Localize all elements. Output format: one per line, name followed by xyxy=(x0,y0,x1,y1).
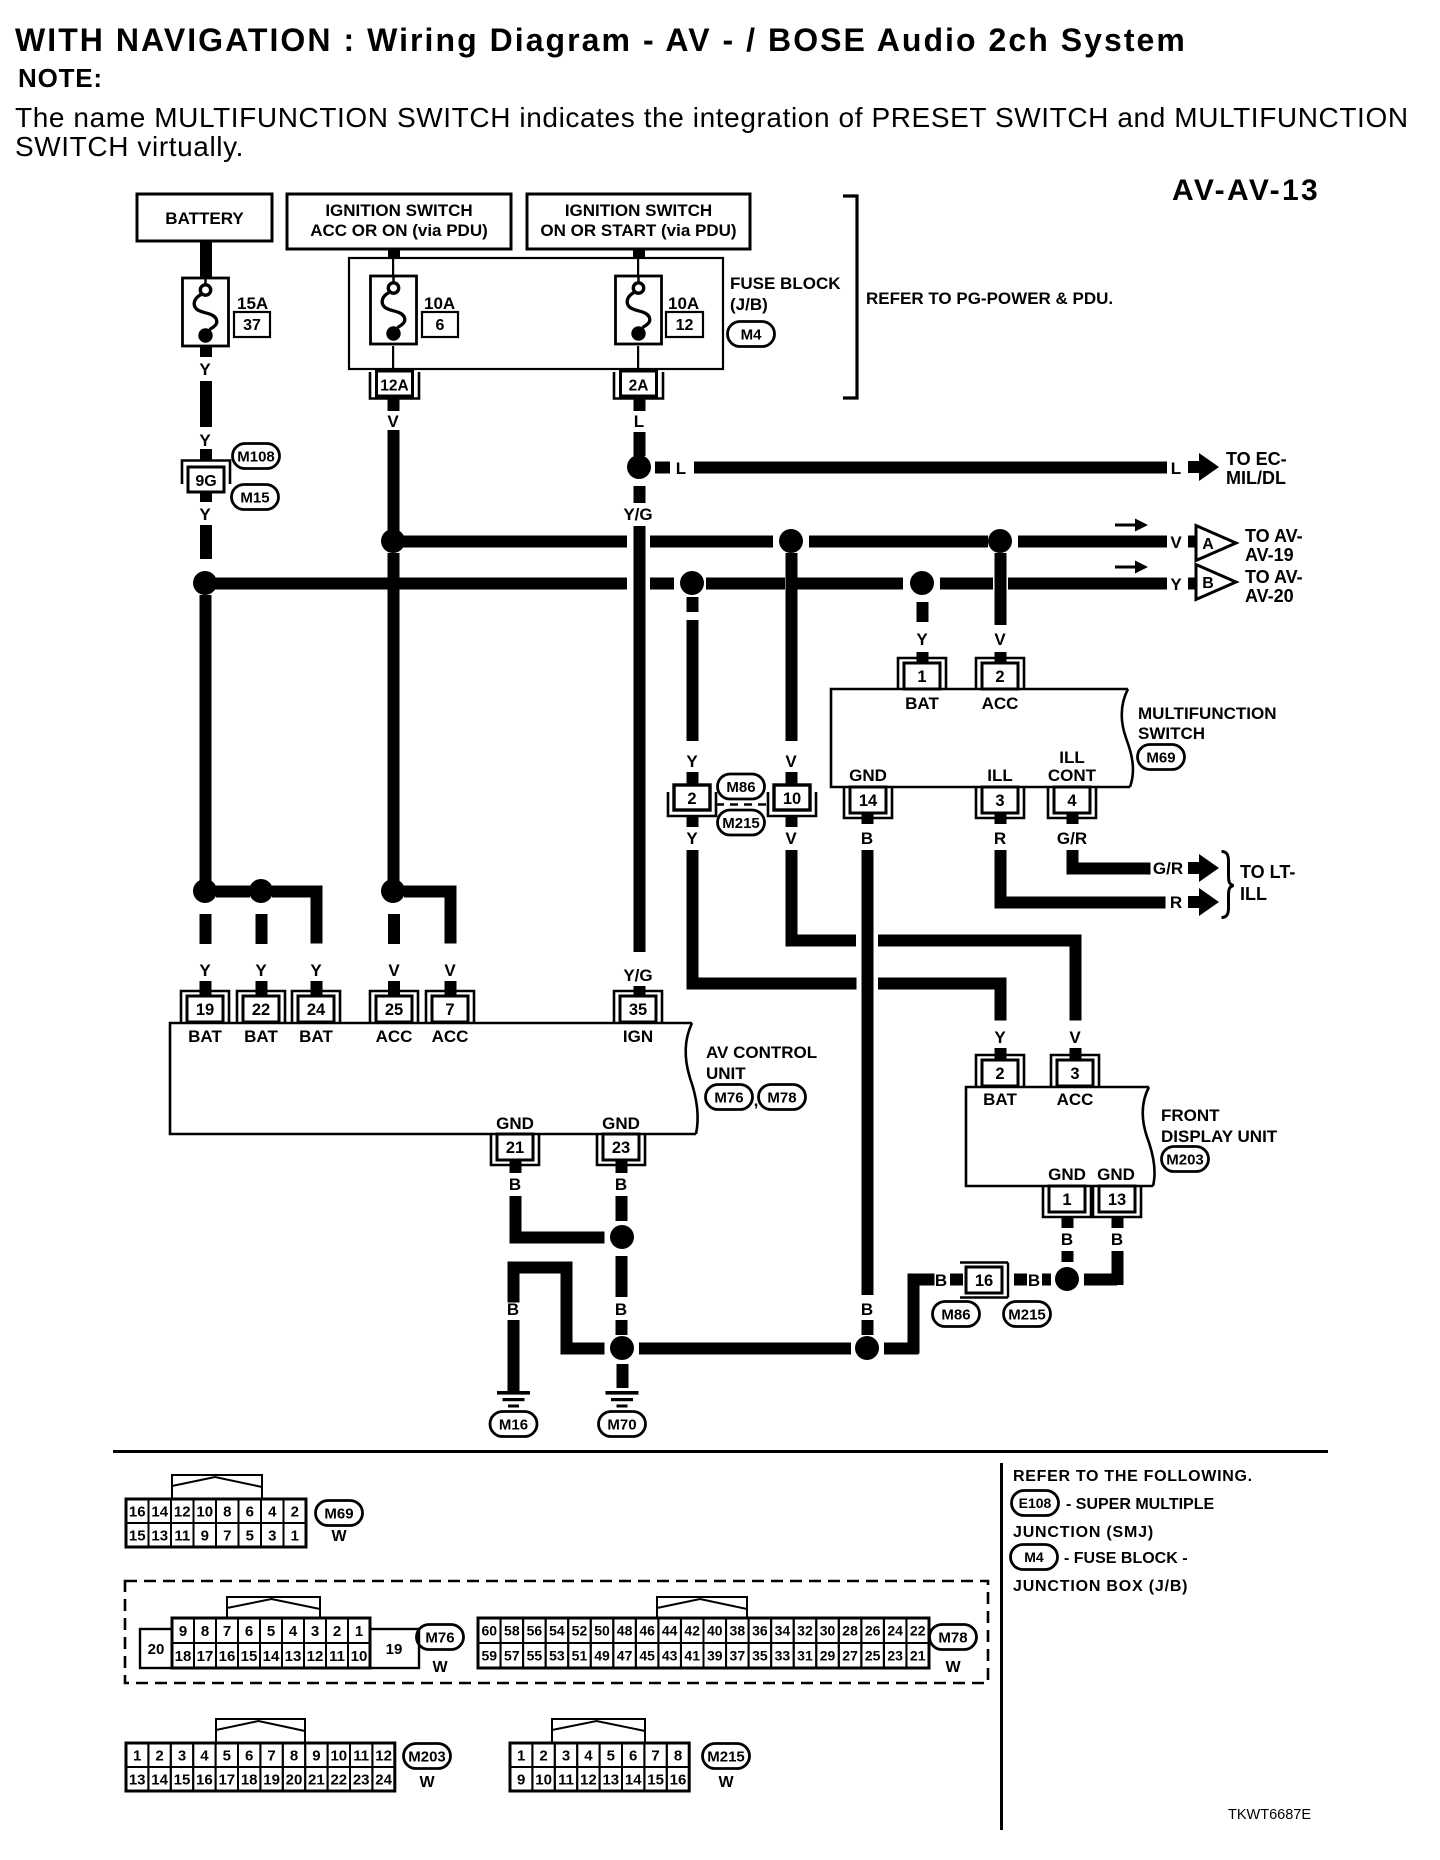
wire Y to pin19 xyxy=(199,914,211,995)
pin 14 MFS xyxy=(844,787,892,818)
svg-text:3: 3 xyxy=(268,1527,276,1544)
svg-text:The name MULTIFUNCTION SWITCH: The name MULTIFUNCTION SWITCH indicates … xyxy=(15,102,1409,133)
svg-text:20: 20 xyxy=(286,1771,303,1788)
node bus V mid1 xyxy=(779,529,803,553)
svg-text:BAT: BAT xyxy=(983,1090,1017,1109)
svg-text:16: 16 xyxy=(670,1771,687,1788)
svg-text:13: 13 xyxy=(1108,1191,1126,1209)
connector grid M78 xyxy=(478,1618,929,1668)
svg-text:M86: M86 xyxy=(941,1306,970,1323)
svg-text:3: 3 xyxy=(178,1747,186,1764)
svg-text:21: 21 xyxy=(910,1648,926,1664)
svg-text:CONT: CONT xyxy=(1048,766,1097,785)
svg-text:GND: GND xyxy=(602,1114,640,1133)
fuse 10A 6 xyxy=(371,276,459,344)
refer text xyxy=(866,289,1113,308)
wire B conn16 to node xyxy=(1014,1271,1051,1290)
svg-text:B: B xyxy=(615,1300,627,1319)
svg-text:ACC: ACC xyxy=(1057,1090,1094,1109)
svg-text:GND: GND xyxy=(1097,1165,1135,1184)
svg-text:L: L xyxy=(634,412,644,431)
svg-text:M215: M215 xyxy=(722,815,760,832)
wire thin f12 bottom xyxy=(637,346,639,371)
svg-text:2: 2 xyxy=(291,1503,299,1520)
svg-text:11: 11 xyxy=(353,1747,369,1764)
svg-text:IGNITION SWITCH: IGNITION SWITCH xyxy=(565,201,712,220)
svg-text:2: 2 xyxy=(155,1747,163,1764)
svg-text:9: 9 xyxy=(201,1527,209,1544)
svg-text:M203: M203 xyxy=(1166,1151,1204,1168)
svg-text:3: 3 xyxy=(562,1747,570,1764)
ground M70 xyxy=(606,1391,639,1408)
svg-text:3: 3 xyxy=(1070,1065,1079,1083)
pin 2 FDU xyxy=(976,1055,1024,1086)
connector M215 oval mid xyxy=(718,810,765,835)
wire Y dash xyxy=(199,381,212,460)
svg-text:JUNCTION (SMJ): JUNCTION (SMJ) xyxy=(1013,1524,1154,1541)
node B junction 21-23 xyxy=(610,1225,634,1249)
svg-text:60: 60 xyxy=(481,1623,497,1639)
svg-text:10: 10 xyxy=(351,1648,368,1665)
connector M16 oval xyxy=(490,1412,537,1437)
junction SMJ text xyxy=(1013,1524,1154,1541)
svg-text:12: 12 xyxy=(307,1648,324,1665)
pin 35 AV xyxy=(614,991,662,1022)
svg-text:V: V xyxy=(1170,533,1182,552)
wire B MFS GND xyxy=(861,813,874,1335)
connector M78 grid oval xyxy=(930,1625,977,1677)
svg-text:11: 11 xyxy=(174,1527,190,1544)
svg-text:59: 59 xyxy=(481,1648,497,1664)
svg-text:W: W xyxy=(432,1659,448,1676)
svg-text:FRONT: FRONT xyxy=(1161,1106,1220,1125)
wire B ground branch xyxy=(507,1262,605,1393)
svg-text:9: 9 xyxy=(517,1771,525,1788)
note body xyxy=(15,102,1409,162)
svg-text:16: 16 xyxy=(129,1503,146,1520)
svg-text:13: 13 xyxy=(285,1648,302,1665)
svg-text:12A: 12A xyxy=(380,378,408,395)
fuse 10A 12 xyxy=(616,276,704,344)
svg-text:2: 2 xyxy=(333,1623,341,1640)
svg-text:AV-AV-13: AV-AV-13 xyxy=(1172,174,1320,207)
svg-text:32: 32 xyxy=(797,1623,813,1639)
pin 21 AV xyxy=(491,1134,539,1165)
svg-text:V: V xyxy=(1069,1028,1081,1047)
wire L 2A to node xyxy=(634,399,646,456)
connector M203 oval xyxy=(1162,1147,1209,1172)
refer following text xyxy=(1013,1468,1253,1485)
svg-text:15: 15 xyxy=(647,1771,664,1788)
connector grid M76 xyxy=(140,1618,419,1668)
fuse 15A 37 xyxy=(183,278,271,346)
connector M4 oval ref xyxy=(1011,1545,1188,1570)
svg-text:W: W xyxy=(331,1528,347,1545)
pin 7 AV xyxy=(426,991,474,1022)
svg-text:ILL: ILL xyxy=(1240,884,1267,904)
svg-text:SWITCH: SWITCH xyxy=(1138,724,1205,743)
bus Y wire xyxy=(205,578,1167,590)
svg-text:21: 21 xyxy=(308,1771,325,1788)
connector 2A xyxy=(614,371,663,399)
svg-text:58: 58 xyxy=(504,1623,520,1639)
wire R to LT-ILL xyxy=(994,813,1182,912)
triangle connector B xyxy=(1196,565,1236,600)
svg-text:14: 14 xyxy=(859,792,878,810)
junction wires y=891 xyxy=(216,886,456,898)
svg-text:R: R xyxy=(1170,893,1182,912)
svg-text:53: 53 xyxy=(549,1648,565,1664)
bus Y label Y xyxy=(1170,575,1182,594)
svg-text:8: 8 xyxy=(223,1503,231,1520)
svg-text:3: 3 xyxy=(995,792,1004,810)
svg-text:15A: 15A xyxy=(237,294,268,313)
svg-text:TO LT-: TO LT- xyxy=(1240,862,1295,882)
svg-text:8: 8 xyxy=(201,1623,209,1640)
bus V stub xyxy=(1188,536,1199,548)
svg-text:BAT: BAT xyxy=(299,1027,333,1046)
pin 4 MFS xyxy=(1048,787,1096,818)
connector 12A xyxy=(370,371,419,399)
svg-text:E108: E108 xyxy=(1019,1495,1052,1511)
bus V label V xyxy=(1170,533,1182,552)
svg-text:42: 42 xyxy=(684,1623,700,1639)
refer bracket xyxy=(843,196,857,398)
connector M86 oval low xyxy=(933,1302,980,1327)
svg-text:Y: Y xyxy=(686,829,698,848)
wire Y to conn2 xyxy=(686,597,698,785)
svg-text:44: 44 xyxy=(662,1623,678,1639)
svg-text:JUNCTION BOX (J/B): JUNCTION BOX (J/B) xyxy=(1013,1578,1188,1595)
pin 19 AV xyxy=(181,991,229,1022)
svg-text:20: 20 xyxy=(148,1641,165,1658)
svg-text:B: B xyxy=(615,1175,627,1194)
svg-text:10: 10 xyxy=(783,790,801,808)
svg-text:W: W xyxy=(718,1774,734,1791)
svg-text:34: 34 xyxy=(775,1623,791,1639)
svg-text:Y: Y xyxy=(686,752,698,771)
svg-text:B: B xyxy=(509,1175,521,1194)
connector M76 grid oval xyxy=(417,1625,464,1677)
svg-text:56: 56 xyxy=(527,1623,543,1639)
svg-text:50: 50 xyxy=(594,1623,610,1639)
bus V wire xyxy=(393,536,1167,548)
svg-text:10A: 10A xyxy=(668,294,699,313)
svg-text:38: 38 xyxy=(730,1623,746,1639)
svg-text:M70: M70 xyxy=(607,1416,636,1433)
svg-text:M215: M215 xyxy=(707,1748,745,1765)
wire B FDU pin13 xyxy=(1084,1217,1124,1286)
svg-text:16: 16 xyxy=(975,1272,993,1290)
separator vline xyxy=(1000,1463,1003,1830)
svg-text:48: 48 xyxy=(617,1623,633,1639)
svg-text:45: 45 xyxy=(639,1648,655,1664)
svg-text:6: 6 xyxy=(245,1747,253,1764)
svg-text:22: 22 xyxy=(330,1771,347,1788)
svg-text:V: V xyxy=(387,412,399,431)
svg-text:G/R: G/R xyxy=(1057,829,1087,848)
svg-text:BAT: BAT xyxy=(905,694,939,713)
svg-text:23: 23 xyxy=(887,1648,903,1664)
ground M16 xyxy=(497,1391,530,1408)
wire V corner to FDU ACC xyxy=(786,935,1082,1061)
svg-text:Y: Y xyxy=(916,630,928,649)
node bus V left xyxy=(381,529,405,553)
wire B pin23 xyxy=(615,1160,628,1221)
svg-text:31: 31 xyxy=(797,1648,813,1664)
svg-text:AV CONTROL: AV CONTROL xyxy=(706,1043,817,1062)
pin 25 AV xyxy=(370,991,418,1022)
wire Y to MFS BAT xyxy=(916,602,928,663)
svg-text:M16: M16 xyxy=(499,1416,528,1433)
svg-text:12: 12 xyxy=(676,317,694,334)
connector M86 oval xyxy=(718,774,765,799)
svg-text:DISPLAY UNIT: DISPLAY UNIT xyxy=(1161,1127,1278,1146)
svg-text:L: L xyxy=(676,459,686,478)
label AV control unit xyxy=(706,1043,817,1083)
wire B FDU pin1 xyxy=(1061,1217,1074,1262)
node bus Y mid2 xyxy=(910,571,934,595)
wire GR to LT-ILL xyxy=(1057,813,1183,878)
svg-text:6: 6 xyxy=(245,1623,253,1640)
svg-text:52: 52 xyxy=(572,1623,588,1639)
wire B ground bus xyxy=(639,1343,851,1355)
svg-text:12: 12 xyxy=(174,1503,191,1520)
svg-text:6: 6 xyxy=(436,317,445,334)
svg-text:REFER TO THE FOLLOWING.: REFER TO THE FOLLOWING. xyxy=(1013,1468,1253,1485)
front display unit box U-M203 xyxy=(966,1087,1155,1186)
svg-text:Y: Y xyxy=(199,431,211,450)
svg-text:TO EC-: TO EC- xyxy=(1226,449,1287,469)
svg-text:BAT: BAT xyxy=(244,1027,278,1046)
pin 3 MFS xyxy=(976,787,1024,818)
svg-text:15: 15 xyxy=(129,1527,146,1544)
svg-text:M4: M4 xyxy=(1024,1549,1044,1565)
svg-text:23: 23 xyxy=(353,1771,370,1788)
svg-text:TKWT6687E: TKWT6687E xyxy=(1228,1807,1311,1823)
wire V to pin25 xyxy=(388,914,400,995)
connector M69 oval xyxy=(1138,745,1185,770)
svg-text:16: 16 xyxy=(196,1771,213,1788)
svg-text:9: 9 xyxy=(312,1747,320,1764)
pin 1 FDU xyxy=(1043,1186,1091,1217)
svg-text:19: 19 xyxy=(263,1771,280,1788)
svg-text:7: 7 xyxy=(651,1747,659,1764)
svg-text:57: 57 xyxy=(504,1648,520,1664)
svg-text:14: 14 xyxy=(151,1771,168,1788)
wire B up to conn16 xyxy=(884,1271,963,1355)
svg-text:M86: M86 xyxy=(726,779,755,796)
svg-text:46: 46 xyxy=(639,1623,655,1639)
svg-text:25: 25 xyxy=(865,1648,881,1664)
svg-text:1: 1 xyxy=(133,1747,141,1764)
brace TO LT-ILL xyxy=(1222,852,1234,918)
wire V bus to junction xyxy=(388,553,400,891)
label TO AV-AV-19 xyxy=(1245,526,1303,565)
bus V arrow marker xyxy=(1115,519,1148,532)
arrow to EC-MIL/DL xyxy=(1188,453,1219,481)
svg-text:M69: M69 xyxy=(324,1505,353,1522)
svg-text:4: 4 xyxy=(1067,792,1077,810)
battery box xyxy=(137,194,272,241)
node B ground junction xyxy=(610,1336,634,1360)
connector grid M203 xyxy=(126,1743,395,1791)
svg-text:18: 18 xyxy=(175,1648,192,1665)
label TO EC-MIL/DL xyxy=(1226,449,1287,488)
pin 13 FDU xyxy=(1093,1186,1141,1217)
connector 10 M86 xyxy=(768,785,816,816)
wire V 12A to bus xyxy=(387,399,399,541)
note heading xyxy=(18,63,103,93)
svg-text:1: 1 xyxy=(917,668,926,686)
svg-text:UNIT: UNIT xyxy=(706,1064,746,1083)
dashed junction line xyxy=(716,803,768,805)
svg-text:37: 37 xyxy=(730,1648,746,1664)
wire Y bus to junction xyxy=(200,595,212,891)
connector 16 M86-M215 xyxy=(960,1263,1008,1298)
svg-text:V: V xyxy=(994,630,1006,649)
svg-text:ACC OR ON (via PDU): ACC OR ON (via PDU) xyxy=(310,221,488,240)
node B junction FDU xyxy=(1055,1267,1079,1291)
svg-text:V: V xyxy=(785,752,797,771)
svg-text:3: 3 xyxy=(311,1623,319,1640)
pin 22 AV xyxy=(237,991,285,1022)
svg-text:39: 39 xyxy=(707,1648,723,1664)
svg-text:10: 10 xyxy=(535,1771,552,1788)
svg-text:ON OR START (via PDU): ON OR START (via PDU) xyxy=(540,221,736,240)
wire thin f6 top xyxy=(392,258,394,276)
svg-text:MULTIFUNCTION: MULTIFUNCTION xyxy=(1138,704,1277,723)
svg-text:14: 14 xyxy=(625,1771,642,1788)
svg-text:M78: M78 xyxy=(938,1629,967,1646)
bus Y arrow marker xyxy=(1115,561,1148,574)
svg-text:54: 54 xyxy=(549,1623,565,1639)
svg-text:1: 1 xyxy=(291,1527,299,1544)
svg-text:Y: Y xyxy=(199,961,211,980)
svg-text:M4: M4 xyxy=(741,326,762,343)
connector M215 oval low xyxy=(1004,1302,1051,1327)
label TO LT-ILL xyxy=(1240,862,1295,904)
svg-text:2: 2 xyxy=(687,790,696,808)
svg-text:30: 30 xyxy=(820,1623,836,1639)
svg-text:TO AV-: TO AV- xyxy=(1245,526,1303,546)
connector M203 grid oval xyxy=(404,1744,451,1792)
wire thin f12 top xyxy=(637,258,639,276)
svg-text:12: 12 xyxy=(580,1771,597,1788)
title xyxy=(15,22,1187,58)
node B junction mid xyxy=(855,1336,879,1360)
svg-text:13: 13 xyxy=(129,1771,146,1788)
svg-text:6: 6 xyxy=(246,1503,254,1520)
connector M70 oval xyxy=(599,1412,646,1437)
svg-text:M215: M215 xyxy=(1008,1306,1046,1323)
svg-text:- SUPER MULTIPLE: - SUPER MULTIPLE xyxy=(1066,1496,1214,1513)
svg-text:GND: GND xyxy=(496,1114,534,1133)
svg-text:M69: M69 xyxy=(1146,749,1175,766)
svg-text:4: 4 xyxy=(268,1503,277,1520)
svg-text:Y: Y xyxy=(310,961,322,980)
svg-text:Y/G: Y/G xyxy=(623,966,652,985)
node L junction xyxy=(627,455,651,479)
svg-text:AV-20: AV-20 xyxy=(1245,586,1294,606)
AV control unit box U-M76-M78 xyxy=(170,1023,698,1134)
svg-text:2: 2 xyxy=(995,1065,1004,1083)
svg-text:Y: Y xyxy=(199,360,211,379)
multifunction switch box U-M69 xyxy=(831,689,1133,787)
svg-text:2: 2 xyxy=(995,668,1004,686)
svg-text:7: 7 xyxy=(445,1001,454,1019)
svg-text:M108: M108 xyxy=(237,448,275,465)
wire L branch right xyxy=(655,459,1181,478)
wire battery to fuse xyxy=(200,241,212,278)
svg-text:ACC: ACC xyxy=(982,694,1019,713)
separator line xyxy=(113,1450,1328,1453)
connector grid M203 bracket xyxy=(216,1719,305,1743)
svg-text:40: 40 xyxy=(707,1623,723,1639)
svg-text:6: 6 xyxy=(629,1747,637,1764)
svg-text:5: 5 xyxy=(267,1623,275,1640)
svg-text:ILL: ILL xyxy=(987,766,1013,785)
svg-text:35: 35 xyxy=(629,1001,647,1019)
svg-text:B: B xyxy=(1111,1230,1123,1249)
svg-text:25: 25 xyxy=(385,1001,403,1019)
svg-text:SWITCH virtually.: SWITCH virtually. xyxy=(15,131,244,162)
svg-text:L: L xyxy=(1171,459,1181,478)
svg-text:M76: M76 xyxy=(425,1629,454,1646)
svg-text:BATTERY: BATTERY xyxy=(165,209,244,228)
svg-text:B: B xyxy=(935,1271,947,1290)
arrow R xyxy=(1188,888,1219,916)
node bus Y mid1 xyxy=(680,571,704,595)
pin 23 AV xyxy=(597,1134,645,1165)
label TO AV-AV-20 xyxy=(1245,567,1303,606)
svg-text:10: 10 xyxy=(196,1503,213,1520)
wire Y to pin24 xyxy=(310,886,322,996)
svg-text:16: 16 xyxy=(219,1648,236,1665)
connector grid M78 bracket xyxy=(657,1597,747,1618)
svg-text:24: 24 xyxy=(307,1001,326,1019)
wire V to conn10 xyxy=(785,553,797,785)
svg-text:15: 15 xyxy=(241,1648,258,1665)
svg-text:18: 18 xyxy=(241,1771,258,1788)
svg-text:13: 13 xyxy=(151,1527,168,1544)
svg-text:B: B xyxy=(861,1300,873,1319)
svg-text:14: 14 xyxy=(263,1648,280,1665)
connector 2 M86 xyxy=(668,785,716,816)
svg-text:A: A xyxy=(1202,536,1214,553)
svg-text:B: B xyxy=(1028,1271,1040,1290)
svg-text:1: 1 xyxy=(517,1747,525,1764)
svg-text:5: 5 xyxy=(607,1747,615,1764)
page ref AV-AV-13 xyxy=(1172,174,1320,207)
svg-text:28: 28 xyxy=(842,1623,858,1639)
svg-text:GND: GND xyxy=(849,766,887,785)
svg-text:W: W xyxy=(419,1774,435,1791)
svg-text:17: 17 xyxy=(197,1648,214,1665)
svg-text:BAT: BAT xyxy=(188,1027,222,1046)
svg-text:M76: M76 xyxy=(714,1089,743,1106)
svg-text:10: 10 xyxy=(330,1747,347,1764)
svg-text:G/R: G/R xyxy=(1153,859,1183,878)
bus Y stub xyxy=(1188,578,1199,590)
dashed SMJ box xyxy=(125,1581,988,1683)
connector grid M215 bracket xyxy=(552,1719,645,1743)
svg-text:5: 5 xyxy=(223,1747,231,1764)
node Y junction 2 xyxy=(249,879,273,903)
svg-text:- FUSE BLOCK -: - FUSE BLOCK - xyxy=(1064,1550,1188,1567)
connector M108 oval xyxy=(233,444,280,469)
wire V to pin7 xyxy=(444,886,456,996)
